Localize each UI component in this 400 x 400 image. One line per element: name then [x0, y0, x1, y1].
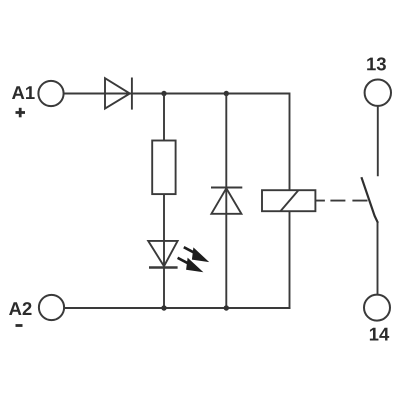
wire resistor-LED branch vertical [163, 94, 165, 309]
diode D1 series [105, 78, 132, 110]
terminal A2 minus polarity [16, 324, 23, 327]
node junction bottom resistor branch [161, 305, 166, 310]
terminal A1 label [12, 86, 35, 99]
wire relay branch lower [289, 211, 291, 309]
LED emission arrow lower [178, 258, 204, 273]
terminal 13 [365, 80, 391, 106]
terminal 14 [364, 295, 390, 321]
node junction bottom diode branch [224, 305, 229, 310]
relay contact NO blade [361, 177, 378, 223]
diode freewheel (points up) [211, 188, 242, 214]
node junction top resistor branch [161, 91, 166, 96]
relay coil K1 [262, 190, 315, 211]
wire contact upper [377, 106, 379, 176]
wire bottom rail A2 to right corner [64, 307, 290, 309]
wire contact lower [377, 223, 379, 295]
resistor R1 [152, 141, 175, 195]
LED emission arrow upper [184, 247, 209, 262]
terminal A2 [39, 295, 64, 320]
terminal 13 label [367, 57, 386, 70]
wire relay branch upper [289, 93, 291, 191]
wire top rail A1 to right corner [64, 93, 290, 95]
terminal A1 [38, 81, 63, 106]
LED [148, 241, 177, 268]
wire freewheel diode branch vertical [225, 94, 227, 309]
node junction top diode branch [224, 91, 229, 96]
terminal 14 label [370, 328, 389, 341]
terminal A2 label [9, 302, 31, 315]
terminal A1 plus polarity [16, 108, 26, 118]
dashed actuation link coil to contact [315, 200, 367, 202]
